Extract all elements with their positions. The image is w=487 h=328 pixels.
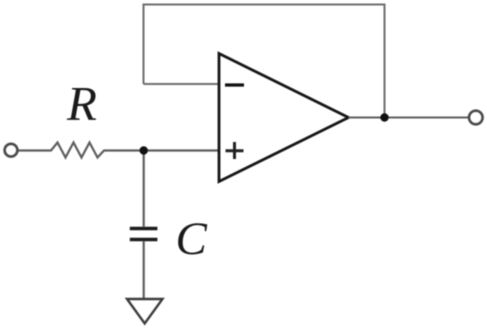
svg-text:C: C <box>176 213 208 265</box>
svg-text:R: R <box>66 76 97 131</box>
